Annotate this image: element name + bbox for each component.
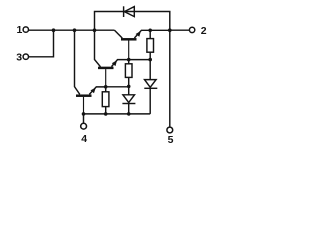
wire: emitter aux drop to terminal 5 [169, 30, 171, 127]
diode D2 (Q2 speed-up, anode up) [122, 86, 135, 114]
node: Q2 collector / top rail junction [93, 28, 97, 32]
transistor Q2 (middle stage) [98, 60, 129, 87]
node: emitter rail / terminal 2 junction [168, 28, 172, 32]
node: T3 junction [52, 28, 56, 32]
wire: terminal 3 up to collector rail [29, 30, 54, 57]
terminal 1 [17, 24, 29, 36]
resistor R2 (Q2 base-emitter) [125, 60, 132, 87]
wire: Q1 collector drop [75, 30, 80, 94]
node: R2/D2 junction [127, 85, 131, 89]
node: Q2 base junction [104, 85, 108, 89]
node: R1 bottom junction [104, 112, 108, 116]
transistor Q3 (output stage) [121, 30, 170, 59]
wire: Q3 collector bend [115, 30, 123, 38]
node: terminal 4 / Q1 base junction [82, 112, 86, 116]
svg-text:3: 3 [16, 52, 22, 64]
node: D2 bottom junction [127, 112, 131, 116]
node: Q1 collector junction [73, 28, 77, 32]
svg-text:1: 1 [17, 24, 23, 36]
wire: Q2 collector drop [95, 30, 101, 67]
node: R3/D3 junction [148, 58, 152, 62]
top rail (freewheel diode rail) [95, 12, 170, 31]
node: R3 top junction [148, 29, 152, 33]
terminal 3 [16, 52, 28, 64]
wire: Q2 base node rail [106, 85, 129, 87]
wire: terminal 1 to collector rail [29, 29, 115, 31]
wire: Q3 base node rail [129, 59, 151, 61]
svg-text:4: 4 [81, 133, 87, 145]
wire: terminal 2 stub [170, 29, 190, 31]
bottom base rail [84, 113, 151, 115]
resistor R3 (Q3 base-emitter) [147, 30, 154, 59]
resistor R1 (Q1 base-emitter) [102, 87, 109, 114]
node: Q3 base junction [127, 58, 131, 62]
freewheel diode D1 (cathode bar left, triangle pointing left) [124, 6, 135, 17]
diode D3 (Q3 speed-up, anode up) [144, 60, 157, 114]
svg-text:5: 5 [168, 134, 174, 146]
terminal 2 [189, 25, 206, 37]
svg-text:2: 2 [201, 25, 207, 37]
transistor Q1 (input stage) [76, 87, 106, 114]
terminal 5 [167, 127, 174, 146]
terminal 4 [81, 123, 88, 145]
wire: drop to terminal 4 [83, 114, 85, 123]
